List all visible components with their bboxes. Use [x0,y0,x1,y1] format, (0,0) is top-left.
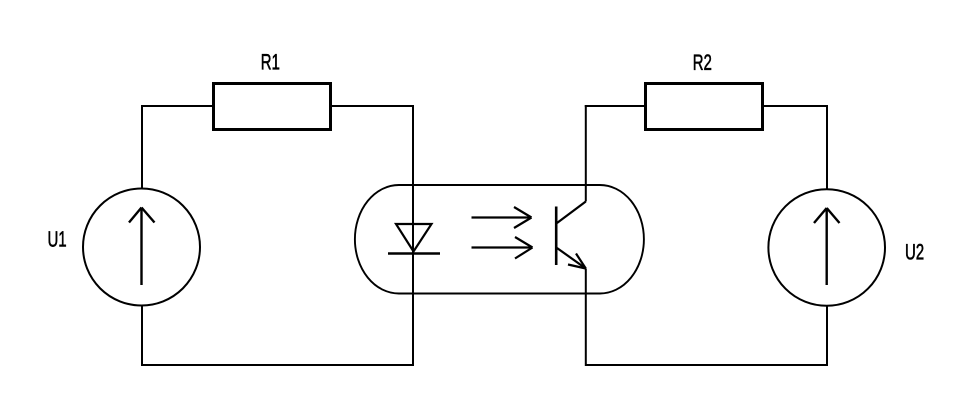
wire: right rail lower (U2 bottom to bottom wire) [826,306,828,366]
phototransistor collector [557,202,586,224]
resistor R2 [646,84,763,130]
wire: collector vertical up to top wire [585,105,587,202]
wire: R1 right to node at x=413 [332,105,413,107]
source U2 [768,189,885,306]
wire: bottom of left loop [141,364,414,366]
wire: R2 right to top-right corner [762,105,829,107]
label U1 [49,231,66,246]
label R1 [262,54,279,69]
source U1 [83,189,200,306]
phototransistor emitter with arrowhead [557,248,586,269]
optocoupler LED [388,224,440,254]
wire: LED branch vertical (x=413, through LED) [412,105,414,366]
wire: top of right loop (to R2 left) [585,105,645,107]
optocoupler body [355,185,644,294]
light arrow 1 [472,207,532,228]
wire: right rail upper (corner down to U2 top) [826,105,828,190]
label R2 [694,54,711,69]
wire: bottom of right loop [585,364,828,366]
wire: left rail lower (U1 circle bottom to bottom wire) [141,306,143,367]
resistor R1 [214,84,331,130]
wire: top-left horizontal (U1 top to R1 left) [141,105,213,107]
label U2 [906,244,923,260]
wire: emitter vertical down to bottom wire [585,269,587,367]
wire: left rail upper (U1 circle top to top wire) [141,105,143,189]
phototransistor base bar [555,207,558,266]
light arrow 2 [472,237,533,259]
